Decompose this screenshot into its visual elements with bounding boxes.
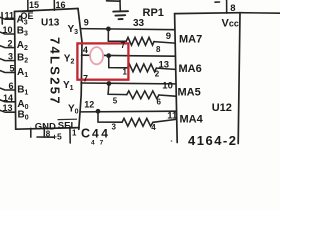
svg-text:A2: A2 xyxy=(17,40,28,52)
svg-text:12: 12 xyxy=(84,100,94,110)
wire Y2 drop to RP1 xyxy=(109,56,128,68)
svg-text:U12: U12 xyxy=(212,102,232,114)
svg-text:SEL: SEL xyxy=(58,120,77,131)
wire RP1-8 to U12 pin 9 xyxy=(154,42,175,44)
wire U13 pin 15 top xyxy=(27,0,29,11)
resistor RP1 5-6 xyxy=(127,91,159,99)
resistor RP1 7-8 xyxy=(126,37,154,45)
svg-text:2: 2 xyxy=(155,70,160,79)
svg-text:33: 33 xyxy=(133,18,145,29)
svg-text:74LS257: 74LS257 xyxy=(48,37,63,106)
wire U13 pin 14 A0 xyxy=(0,100,15,102)
IC U13 body outline (74LS257 quad 2-1 mux) xyxy=(15,9,83,130)
node stray dot xyxy=(171,140,173,142)
svg-text:Y3: Y3 xyxy=(68,24,79,36)
svg-text:6: 6 xyxy=(157,98,162,107)
svg-text:MA7: MA7 xyxy=(179,34,202,46)
svg-text:5: 5 xyxy=(113,97,118,106)
svg-text:MA4: MA4 xyxy=(180,114,204,126)
svg-text:3: 3 xyxy=(112,123,117,132)
svg-text:MA6: MA6 xyxy=(179,63,202,75)
wire net Y2 to U12 xyxy=(82,55,176,56)
svg-text:Y1: Y1 xyxy=(63,80,74,92)
wire U13 pin 11 A3 xyxy=(0,13,15,25)
wire U13 pin 13 B0 xyxy=(0,110,15,112)
svg-text:+5: +5 xyxy=(52,132,62,142)
wire RP1-6 to U12 pin 10 xyxy=(159,95,176,96)
node Y0 junction xyxy=(96,109,101,114)
wire Y1 drop to RP1 xyxy=(108,84,127,95)
svg-text:U13: U13 xyxy=(41,18,60,29)
wire dash above U12 xyxy=(215,1,220,3)
annotation red rectangle xyxy=(77,43,128,79)
svg-text:C44: C44 xyxy=(81,127,110,141)
svg-text:10: 10 xyxy=(3,25,13,35)
wire net Y3 to U12 xyxy=(81,29,175,30)
svg-text:4: 4 xyxy=(83,45,88,55)
svg-text:Y0: Y0 xyxy=(68,104,79,116)
svg-text:B3: B3 xyxy=(17,26,28,38)
wire U12 pin 8 Vcc xyxy=(226,0,228,13)
wire U13 pin 6 B1 xyxy=(0,88,15,90)
svg-text:5: 5 xyxy=(10,63,15,73)
wire U13 pin 3 B2 xyxy=(0,59,15,61)
svg-text:B2: B2 xyxy=(17,53,28,65)
wire net Y1 to U12 xyxy=(81,82,175,85)
wire U13 pin 16 top xyxy=(53,0,55,10)
svg-text:3: 3 xyxy=(8,52,13,62)
svg-text:RP1: RP1 xyxy=(143,7,164,19)
svg-text:8: 8 xyxy=(230,3,235,14)
svg-text:4: 4 xyxy=(151,123,156,132)
wire U13 pin 5 A1 xyxy=(0,71,15,73)
svg-text:13: 13 xyxy=(3,103,13,113)
wire net Y0 to U12 xyxy=(81,110,176,113)
svg-text:13: 13 xyxy=(159,60,170,71)
wire Y3 drop to RP1 xyxy=(108,29,126,41)
node Y3 junction xyxy=(106,27,111,32)
wire U13 pin 2 A2 xyxy=(0,46,15,48)
svg-text:MA5: MA5 xyxy=(178,87,201,99)
svg-text:B0: B0 xyxy=(18,110,29,122)
svg-text:Vcc: Vcc xyxy=(222,18,239,30)
svg-text:Y2: Y2 xyxy=(64,54,75,66)
svg-text:4164-2: 4164-2 xyxy=(188,133,237,148)
svg-text:8: 8 xyxy=(156,45,161,54)
svg-text:2: 2 xyxy=(8,39,13,49)
svg-text:11: 11 xyxy=(5,10,15,20)
svg-text:B1: B1 xyxy=(17,85,28,97)
label SEL with overline xyxy=(58,119,78,131)
svg-text:9: 9 xyxy=(166,31,171,42)
svg-text:10: 10 xyxy=(162,81,173,92)
svg-text:16: 16 xyxy=(56,0,66,10)
wire U13 pin 1 SEL bottom xyxy=(69,127,71,144)
svg-text:15: 15 xyxy=(29,0,39,10)
svg-text:A1: A1 xyxy=(17,67,28,79)
resistor RP1 1-2 xyxy=(128,64,157,72)
wire RP1-2 to U12 pin 13 xyxy=(156,68,175,69)
wire Y0 drop to RP1 xyxy=(98,111,122,122)
svg-text:6: 6 xyxy=(9,81,14,91)
node Y1 junction xyxy=(107,81,112,86)
wire RP1-4 to U12 pin 11 xyxy=(153,119,176,122)
svg-text:11: 11 xyxy=(167,110,178,121)
wire Vcc top right xyxy=(240,12,280,15)
node Y2 junction xyxy=(106,53,111,58)
ground symbol top xyxy=(107,0,129,19)
wire U13 pin 10 B3 xyxy=(0,32,15,34)
annotation red ellipse xyxy=(90,47,103,64)
IC U12 chip outline (4164-2 DRAM) xyxy=(175,13,240,144)
svg-text:7: 7 xyxy=(83,74,88,84)
svg-text:9: 9 xyxy=(84,18,89,28)
svg-text:7: 7 xyxy=(121,41,126,50)
wire U13 pin 8 GND bottom xyxy=(31,127,54,137)
label OE with overline xyxy=(21,11,34,21)
svg-text:47: 47 xyxy=(91,140,108,147)
svg-text:1: 1 xyxy=(123,68,128,77)
resistor RP1 3-4 xyxy=(122,118,153,126)
svg-text:14: 14 xyxy=(3,93,13,103)
